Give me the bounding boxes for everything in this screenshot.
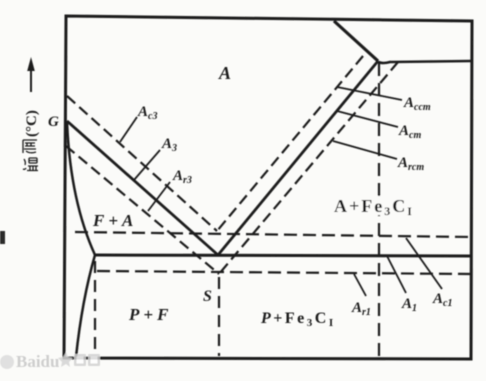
PQ solid curve [76,255,95,357]
leader for Accm label [337,87,402,100]
Ac1 dashed horizontal line [75,232,471,237]
svg-text:G: G [48,114,59,130]
A3 solid line G to S [67,121,218,255]
leader for Ac3 label [120,117,137,142]
svg-text:P+F: P+F [128,305,172,324]
leader for Acm label [337,111,398,127]
vertical dashed line below P [94,261,96,356]
svg-text:P+Fe3CI: P+Fe3CI [260,310,336,329]
Ac3 dashed line [67,96,217,231]
svg-text:S: S [203,288,212,305]
svg-text:Baidu: Baidu [16,352,59,371]
Arcm dashed line [219,62,398,274]
leader for Ac1 label [406,238,442,289]
温 glyph approx [23,158,38,171]
vertical dashed line below S [218,277,220,356]
diagram frame box [64,16,472,359]
Acm solid line E to S [218,61,378,255]
vertical dashed line through E [378,63,380,356]
label region A+Fe3C_I [332,196,416,215]
watermark Baidu Baike [0,352,100,371]
temperature axis arrow shaft [30,68,32,92]
leader for Ar3 label [148,182,170,211]
svg-text:A+Fe3CI: A+Fe3CI [334,196,414,218]
leader for Arcm label [333,141,397,159]
svg-text:(°C): (°C) [24,110,40,137]
scan artifact mark at left edge [0,231,5,244]
GP solid line [67,121,95,255]
Ar1 dashed horizontal line [97,271,471,274]
Ar3 dashed line [66,146,219,274]
leader for A3 label [134,150,160,180]
leader for Ar1 label [354,274,366,296]
leader for A1 label [387,256,406,293]
A1 solid horizontal line (PSK) [95,255,471,256]
svg-text:F+A: F+A [92,211,137,230]
svg-text:A: A [218,63,231,83]
Accm dashed line [217,56,363,231]
solidus line JE (top border to point E) [334,21,378,61]
度 glyph approx [23,140,37,153]
eutectic horizontal line E to right border [378,61,472,63]
axis label Chinese: 温度 drawn glyphs [23,140,38,171]
temperature axis arrow head [27,57,35,71]
